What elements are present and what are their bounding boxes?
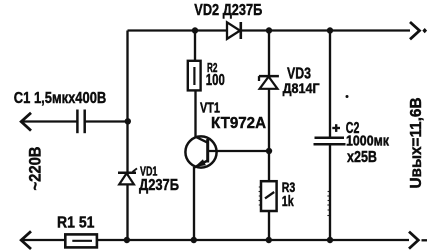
diode VD1 [118,168,137,184]
node dot rail/VD3 [266,27,272,33]
svg-text:~220В: ~220В [26,146,44,190]
svg-text:х25В: х25В [347,149,377,166]
terminal arrow left bottom [21,231,31,249]
wire R2 column top [194,31,196,62]
node dot bottom/emitter [191,237,197,243]
zener VD3 [259,76,279,89]
resistor R2 [188,61,201,91]
wire top rail [128,29,411,31]
capacitor C1 plates [77,110,84,134]
ink dash right bottom [422,239,428,241]
svg-text:VD2 Д237Б: VD2 Д237Б [194,2,262,19]
wire R3 to bottom rail [268,211,270,240]
wire bottom rail [22,239,409,241]
node dot bottom/VD1 [124,237,130,243]
node dot C1 junction [125,118,131,124]
wire C1 line left [22,120,77,122]
node dot bottom/C2 [327,237,333,243]
svg-text:С1 1,5мкх400В: С1 1,5мкх400В [14,90,107,107]
svg-text:VT1: VT1 [200,100,220,116]
wire VD3 column [268,31,270,152]
svg-text:1000мк: 1000мк [346,133,389,150]
node dot bottom/R3 [266,237,272,243]
svg-text:100: 100 [206,72,225,89]
diode VD2 [227,22,241,39]
terminal arrow left top [21,113,31,131]
resistor R3 [261,181,277,211]
scan noise ticks on C2 wire [327,192,329,216]
wire C2 column top [329,31,331,138]
node dot rail/C2 [327,27,333,33]
svg-text:R1 51: R1 51 [57,215,95,232]
svg-text:Д237Б: Д237Б [139,177,179,194]
resistor R1 [65,234,97,247]
terminal arrow right bottom [409,232,418,249]
scan noise ticks on R3 left edge [259,187,260,205]
svg-text:Uвых=11,6В: Uвых=11,6В [408,98,425,189]
terminal arrow right top [410,22,420,39]
wire base node to R3 [268,151,270,181]
C2 plus sign [332,124,340,132]
transistor VT1 [185,136,269,167]
ink speck [346,95,349,98]
capacitor C2 [314,138,346,145]
node dot base/VD3/R3 [266,148,272,154]
wire emitter to bottom rail [193,167,195,240]
wire R2 to transistor collector [194,90,196,137]
wire left vertical (C1 node column) [126,31,128,241]
wire C2 column bottom [329,144,331,240]
svg-text:1k: 1k [282,193,294,210]
node dot rail/R2 [192,27,198,33]
wire C1 line right [85,120,128,122]
ink blob right top [422,28,427,33]
svg-text:КТ972А: КТ972А [211,115,266,132]
svg-text:Д814Г: Д814Г [283,80,320,96]
